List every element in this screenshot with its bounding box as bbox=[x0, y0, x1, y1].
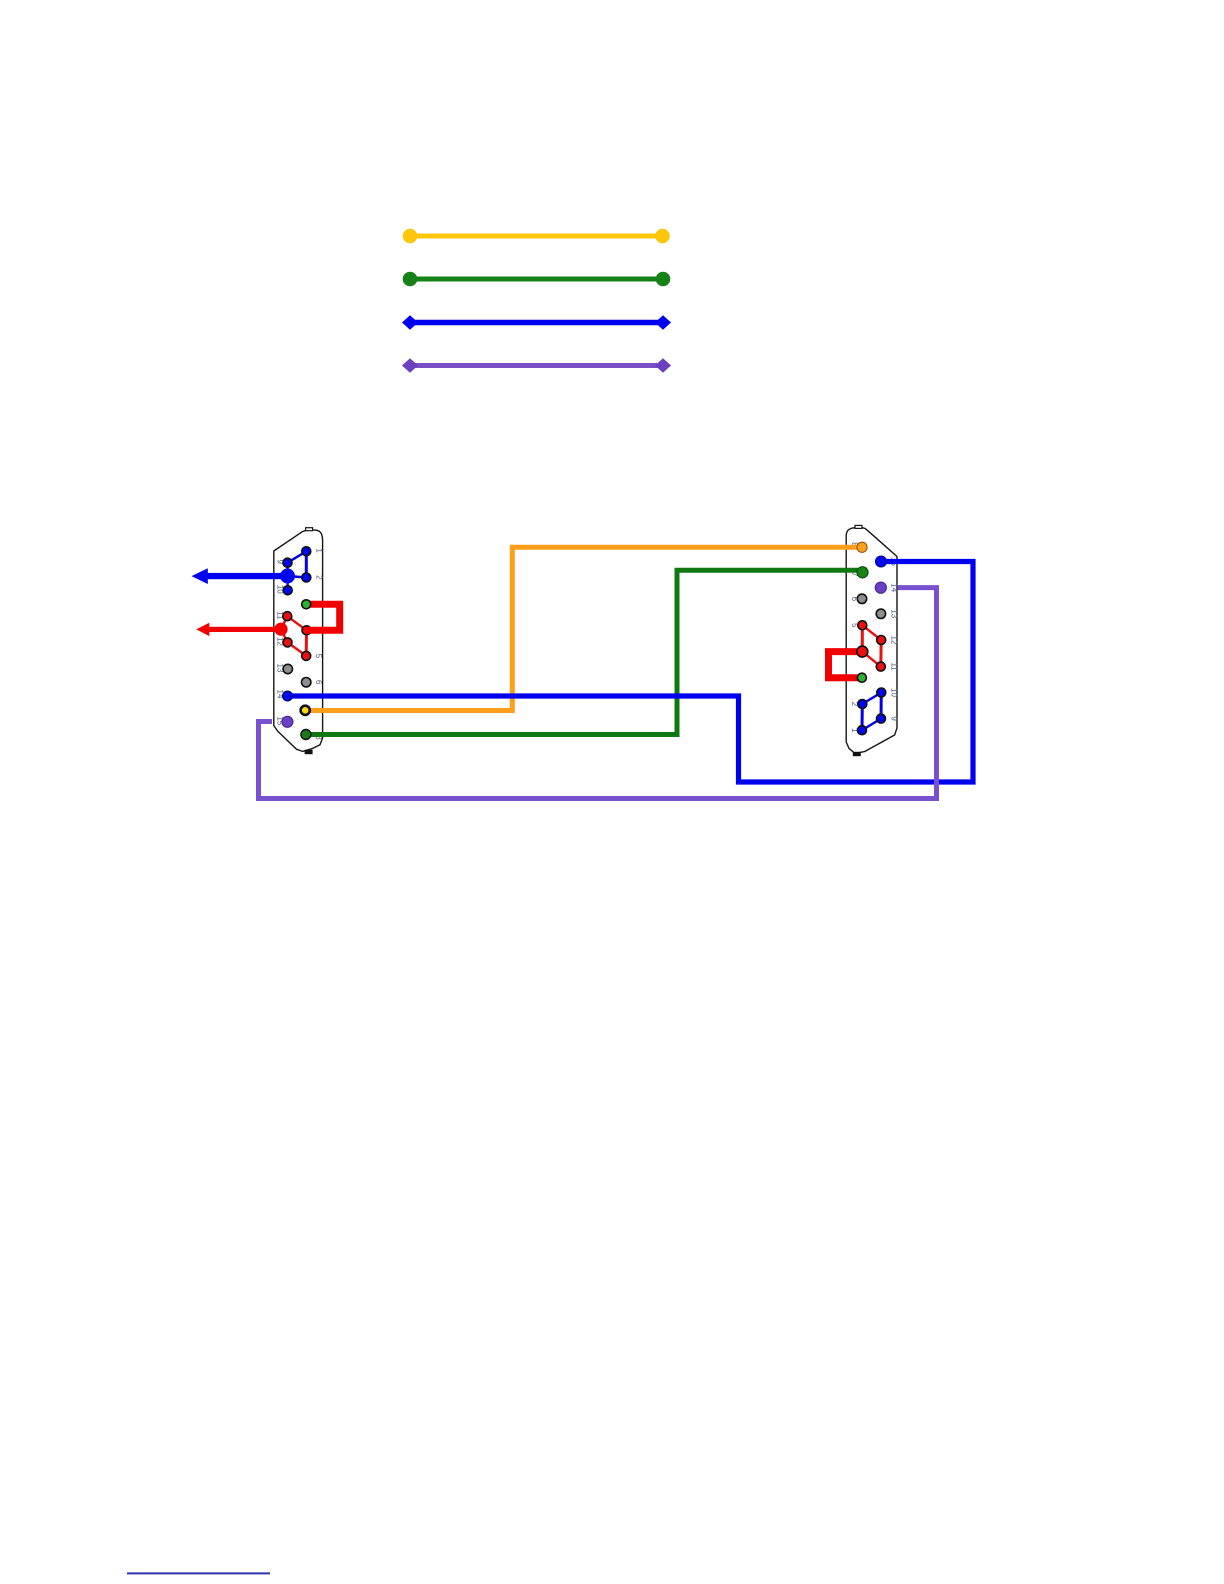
pin 8L bbox=[301, 730, 311, 740]
pin 11R bbox=[876, 662, 885, 671]
pin 9L bbox=[283, 558, 292, 567]
pin 6L bbox=[302, 678, 311, 687]
pin 7R bbox=[857, 567, 868, 578]
left connector blue pin links bbox=[288, 551, 307, 590]
svg-text:2: 2 bbox=[315, 575, 324, 580]
pin 1R bbox=[858, 726, 867, 735]
pin 2L bbox=[302, 573, 311, 582]
pin 4L bbox=[302, 626, 311, 635]
legend green wire bbox=[403, 272, 671, 287]
left connector body bbox=[274, 528, 323, 755]
left connector pins bbox=[282, 547, 311, 740]
svg-text:6: 6 bbox=[314, 680, 323, 685]
pin 14R bbox=[875, 582, 886, 593]
pin 15L bbox=[282, 716, 293, 727]
pin 5R bbox=[858, 621, 867, 630]
right connector blue pin links bbox=[862, 693, 881, 731]
legend purple wire bbox=[402, 358, 671, 372]
red arrow left bbox=[196, 623, 281, 636]
pin 6R bbox=[857, 594, 866, 603]
svg-text:13: 13 bbox=[889, 609, 898, 618]
blue junction node left bbox=[280, 569, 295, 584]
pin 13R bbox=[876, 609, 885, 618]
pin 10L bbox=[283, 586, 292, 595]
pin 12L bbox=[283, 638, 292, 647]
svg-text:12: 12 bbox=[889, 636, 898, 645]
red junction node left bbox=[274, 623, 287, 636]
wire orange pin7L to pin8R bbox=[305, 547, 862, 710]
pin 13L bbox=[283, 664, 292, 673]
right connector body bbox=[846, 525, 897, 756]
legend blue wire bbox=[402, 315, 671, 329]
pin 12R bbox=[877, 636, 886, 645]
right connector pins bbox=[857, 542, 887, 735]
svg-text:5: 5 bbox=[314, 654, 323, 659]
legend yellow wire bbox=[403, 229, 670, 244]
pin 2R bbox=[858, 700, 867, 709]
left red jumper loop pin3 to pin4 bbox=[306, 604, 340, 630]
footer link line bbox=[127, 1572, 270, 1574]
pin 9R bbox=[877, 714, 886, 723]
svg-text:10: 10 bbox=[889, 688, 898, 697]
left connector red pin links bbox=[281, 616, 307, 656]
pin 8R bbox=[857, 542, 867, 552]
pin 14L bbox=[283, 691, 293, 701]
pin 7L bbox=[301, 706, 310, 715]
pin 3R bbox=[857, 673, 866, 682]
blue arrow left bbox=[192, 568, 289, 584]
pin 10R bbox=[877, 688, 886, 697]
svg-text:9: 9 bbox=[889, 716, 898, 721]
wire purple pin15L to pin14R bbox=[259, 588, 937, 799]
right connector red pin links bbox=[862, 625, 881, 666]
pin labels right connector bbox=[850, 542, 899, 733]
svg-text:1: 1 bbox=[315, 548, 324, 553]
pin 11L bbox=[283, 612, 292, 621]
right red jumper loop pin4 to pin3 bbox=[829, 652, 863, 678]
pin 15R bbox=[876, 556, 887, 567]
svg-text:11: 11 bbox=[889, 662, 898, 671]
pin 4R bbox=[857, 646, 868, 657]
wire blue pin14L to pin15R bbox=[288, 562, 974, 783]
pin 1L bbox=[302, 547, 311, 556]
pin labels left connector bbox=[276, 548, 324, 740]
svg-text:14: 14 bbox=[889, 583, 898, 592]
pin 5L bbox=[302, 651, 311, 660]
wire green pin8L to pin7R bbox=[306, 570, 863, 734]
pin 3L bbox=[302, 600, 311, 609]
